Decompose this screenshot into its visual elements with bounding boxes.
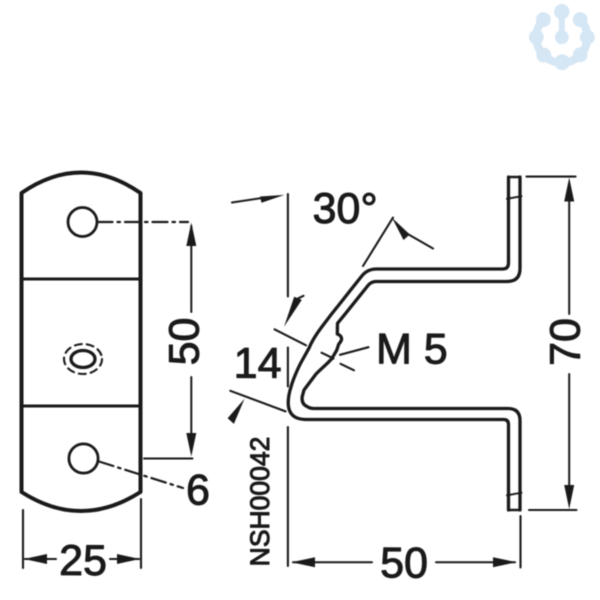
dim 70 ext top [527,176,576,178]
svg-text:M 5: M 5 [376,325,448,373]
30 deg leader left [232,198,262,203]
bottom flange cap [509,509,521,512]
top flange cap [509,176,521,179]
30 deg diagonal extension [363,218,393,266]
dim 70 arrows [564,178,574,202]
svg-text:14: 14 [234,340,282,388]
logo blobs [529,4,595,70]
dim 14 ext lower [230,391,285,412]
dim 14 arrow upper [284,297,302,327]
dim 70 ext bottom [529,509,577,511]
svg-text:NSH00042: NSH00042 [245,437,275,567]
bottom hole reference line [144,458,193,460]
profile inner line [302,177,520,510]
bottom hole [69,444,98,473]
30 deg arc arrow [392,218,410,240]
dimension 50 left line [190,226,192,312]
dimension 25 ext right [140,499,142,568]
dimension 25 ext left [22,510,24,568]
svg-text:25: 25 [59,537,107,585]
svg-text:6: 6 [186,466,210,514]
svg-text:70: 70 [542,318,590,366]
M5 centerline dashes [275,329,307,345]
centerline from top hole [98,221,189,223]
svg-text:30°: 30° [312,185,377,233]
dim 50 bottom right ext [519,516,521,568]
leader to 6 [99,462,183,489]
dim 50 left arrows [186,223,196,247]
divider line lower [22,405,141,408]
dim 25 line [25,558,56,560]
logo ring [536,13,587,63]
dim 70 line [568,199,570,314]
30 deg reference vertical line [287,194,289,297]
svg-text:50: 50 [161,318,209,366]
bottom flange tick [507,493,522,496]
center oval dashed [64,344,102,374]
divider line upper [22,278,141,281]
top flange tick [507,196,522,199]
dim 50 bottom arrows [292,557,316,567]
dim 14 arrow lower [228,399,245,424]
dim 25 arrows [24,554,47,564]
top hole [68,208,97,237]
M5 leader [340,347,369,355]
dim 50 bottom line [293,561,372,563]
svg-text:50: 50 [380,539,428,587]
profile outer line [288,177,508,510]
center oval solid [71,351,95,368]
left view plate outline [22,173,141,512]
